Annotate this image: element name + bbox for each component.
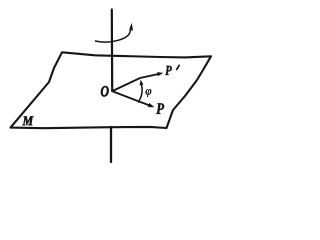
angle phi arc arrowhead [140,80,144,86]
rotation axis upper segment [111,10,114,92]
angle phi arc [138,83,142,103]
label P' (upper) [165,66,172,75]
vector P' (line) [113,74,159,91]
label P (lower) [156,103,164,113]
label phi [146,89,152,97]
label O [101,86,108,96]
plane M outline [11,52,212,128]
vector P (line) [113,91,150,105]
vector P' arrowhead [157,72,163,76]
label M [22,116,33,125]
prime mark of P' [177,65,180,69]
rotation arrowhead [129,23,133,31]
rotation axis lower segment [110,127,112,162]
rotation direction arc [96,26,132,42]
vector P arrowhead [148,103,155,107]
